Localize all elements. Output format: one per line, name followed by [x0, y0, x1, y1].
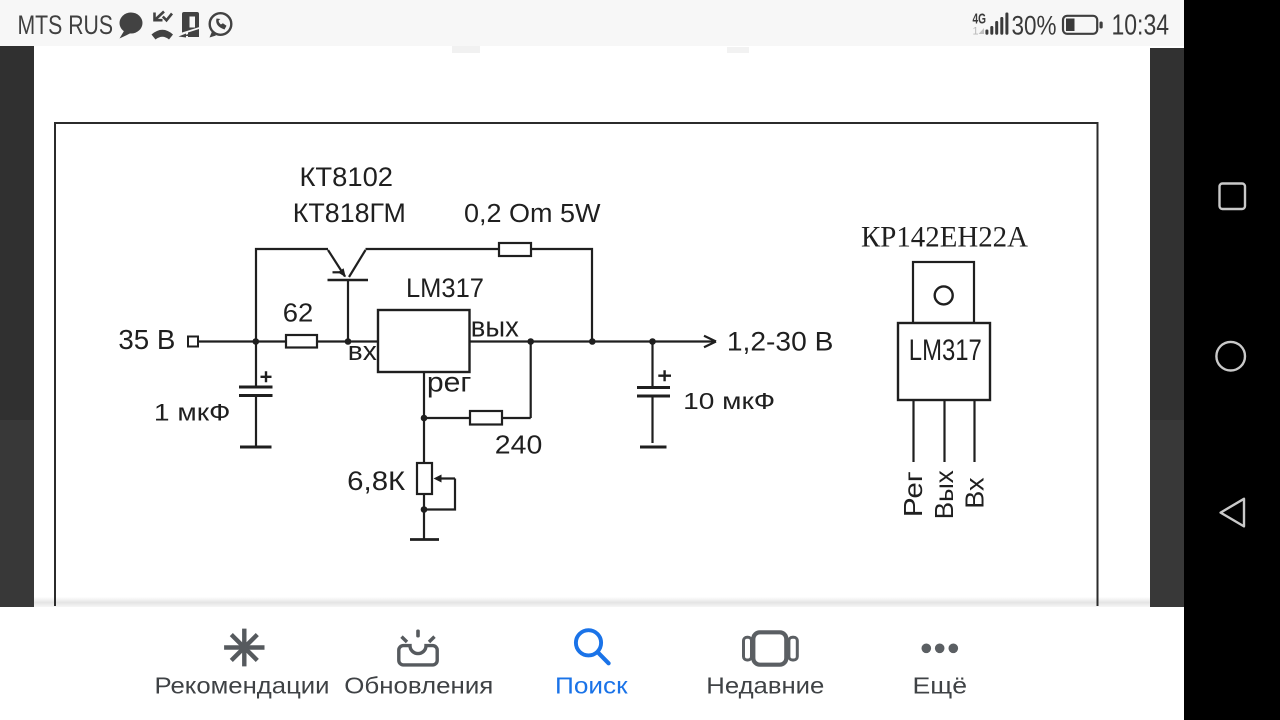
svg-text:10:34: 10:34 [1112, 10, 1170, 42]
svg-text:рег: рег [427, 367, 472, 398]
svg-text:Недавние: Недавние [706, 673, 824, 699]
svg-text:LM317: LM317 [909, 334, 982, 367]
svg-text:КТ818ГМ: КТ818ГМ [293, 198, 406, 228]
svg-text:Рекомендации: Рекомендации [155, 673, 330, 699]
svg-text:вых: вых [471, 312, 519, 344]
svg-text:62: 62 [283, 298, 314, 328]
svg-text:1 мкФ: 1 мкФ [154, 399, 231, 426]
svg-text:вх: вх [348, 336, 377, 366]
svg-text:0,2 Om 5W: 0,2 Om 5W [464, 200, 601, 228]
svg-text:30%: 30% [1012, 11, 1057, 41]
svg-text:10 мкФ: 10 мкФ [683, 388, 775, 414]
svg-text:35 В: 35 В [118, 324, 175, 355]
svg-text:Поиск: Поиск [555, 673, 629, 699]
svg-text:LM317: LM317 [406, 273, 484, 303]
svg-text:1: 1 [973, 26, 979, 38]
svg-text:Рег: Рег [898, 471, 928, 517]
svg-text:Обновления: Обновления [344, 673, 493, 699]
svg-text:Ещё: Ещё [913, 673, 968, 699]
svg-text:КТ8102: КТ8102 [300, 162, 394, 192]
svg-text:Вых: Вых [929, 470, 959, 519]
svg-text:Вх: Вх [959, 478, 989, 509]
svg-text:MTS RUS: MTS RUS [18, 10, 114, 40]
svg-text:КР142ЕН22А: КР142ЕН22А [861, 222, 1029, 254]
svg-text:1,2-30 В: 1,2-30 В [727, 326, 834, 356]
svg-text:240: 240 [495, 432, 543, 460]
svg-text:6,8К: 6,8К [347, 466, 405, 496]
